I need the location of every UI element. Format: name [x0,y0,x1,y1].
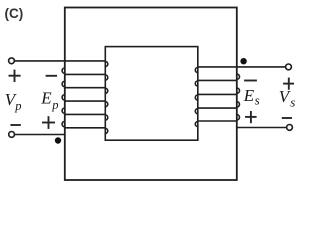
svg-text:E: E [40,89,52,108]
svg-text:(C): (C) [5,6,24,21]
svg-text:p: p [14,99,21,113]
svg-text:E: E [243,86,255,105]
svg-text:s: s [255,92,260,107]
svg-text:p: p [51,98,58,112]
svg-text:s: s [290,94,295,109]
